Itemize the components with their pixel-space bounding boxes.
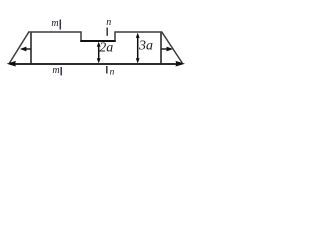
svg-text:m: m xyxy=(51,18,58,29)
section line n (vertical right) xyxy=(160,33,162,64)
notch bottom line (darker) xyxy=(80,40,116,42)
svg-text:m: m xyxy=(52,65,59,76)
dimension arrow 2a (double headed vertical) xyxy=(98,44,100,62)
svg-text:3a: 3a xyxy=(138,39,153,54)
right horizontal arrow to slope xyxy=(161,48,167,50)
beam outline (stepped trapezoid) xyxy=(9,32,182,64)
tick after top m label xyxy=(59,20,61,30)
svg-text:n: n xyxy=(110,68,115,78)
bottom axis line xyxy=(10,63,181,65)
svg-text:n: n xyxy=(106,17,111,28)
section line m (vertical) xyxy=(30,33,32,64)
tick below top n label xyxy=(106,28,108,36)
tick after bottom m label xyxy=(60,67,62,75)
axis arrowhead right xyxy=(176,61,186,67)
left horizontal arrow to slope xyxy=(26,48,31,50)
dimension arrow 3a (double headed vertical) xyxy=(137,35,139,62)
axis arrowhead left xyxy=(7,61,16,67)
svg-text:2a: 2a xyxy=(99,41,113,56)
tick before bottom n label xyxy=(106,66,108,74)
